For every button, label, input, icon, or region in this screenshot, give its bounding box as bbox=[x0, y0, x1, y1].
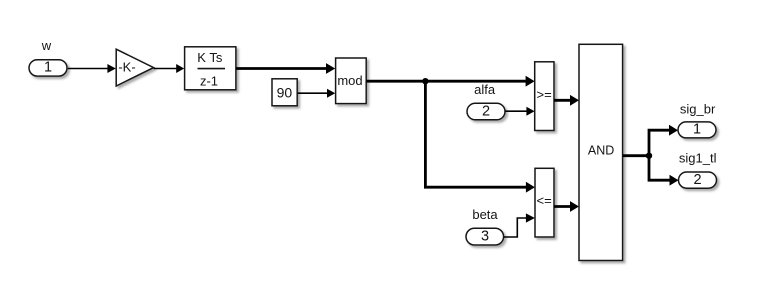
svg-text:AND: AND bbox=[588, 144, 614, 158]
svg-text:1: 1 bbox=[44, 60, 52, 76]
svg-text:alfa: alfa bbox=[474, 82, 496, 97]
wire: gte to AND (thick) bbox=[554, 99, 572, 102]
wire: junction down to outport 2 (thick) bbox=[649, 156, 671, 181]
constant 90 block bbox=[272, 79, 297, 106]
wire: w to gain bbox=[68, 68, 109, 70]
svg-text:beta: beta bbox=[472, 207, 498, 222]
arrowhead into gte input 1 bbox=[526, 76, 535, 87]
wire: beta to lte (stepped) bbox=[504, 218, 527, 237]
wire: mod to relational gte (thick) bbox=[366, 80, 527, 83]
svg-text:1: 1 bbox=[693, 122, 701, 138]
constant alfa (2) bbox=[467, 103, 505, 120]
arrowhead into AND input 1 bbox=[570, 95, 579, 106]
wire: junction down to relational lte (thick) bbox=[425, 81, 527, 187]
svg-text:-K-: -K- bbox=[118, 60, 135, 75]
arrowhead into gte input 2 bbox=[526, 107, 534, 116]
wire: 90 to mod bbox=[298, 92, 328, 94]
discrete transfer fcn block bbox=[185, 47, 236, 90]
svg-text:w: w bbox=[41, 38, 52, 53]
wire: gain to discrete transfer fcn bbox=[154, 68, 177, 70]
svg-text:2: 2 bbox=[693, 172, 701, 188]
wire: lte to AND (thick) bbox=[554, 205, 572, 208]
junction dot on mod output bbox=[422, 78, 428, 84]
svg-text:<=: <= bbox=[537, 193, 552, 208]
arrowhead into lte input 1 bbox=[526, 182, 535, 193]
wire: alfa to gte bbox=[506, 110, 528, 112]
outport 1 (sig_br) bbox=[678, 122, 716, 138]
arrowhead into gain bbox=[107, 64, 115, 73]
svg-text:mod: mod bbox=[337, 73, 362, 88]
inport 1 (w) bbox=[29, 60, 67, 76]
svg-text:2: 2 bbox=[482, 103, 490, 119]
svg-text:z-1: z-1 bbox=[200, 73, 218, 88]
logical operator AND block bbox=[579, 44, 623, 260]
svg-text:3: 3 bbox=[481, 228, 489, 244]
wire: transfer fcn to mod (thick) bbox=[236, 67, 328, 70]
junction dot on AND output bbox=[646, 153, 652, 159]
svg-text:K Ts: K Ts bbox=[197, 50, 223, 65]
svg-text:90: 90 bbox=[277, 84, 293, 100]
arrowhead into AND input 2 bbox=[570, 201, 579, 212]
svg-text:sig1_tl: sig1_tl bbox=[679, 151, 717, 166]
arrowhead into mod input 2 bbox=[327, 89, 335, 98]
arrowhead into mod input 1 bbox=[326, 63, 335, 74]
outport 2 (sig1_tl) bbox=[679, 172, 717, 188]
wire: junction up to outport 1 (thick) bbox=[649, 130, 671, 156]
arrowhead into outport 2 bbox=[670, 175, 679, 186]
wire: AND output to junction (thick) bbox=[623, 154, 650, 157]
arrowhead into outport 1 bbox=[669, 125, 678, 136]
svg-text:sig_br: sig_br bbox=[680, 102, 716, 117]
arrowhead into transfer fcn bbox=[176, 64, 184, 73]
gain block -K- bbox=[116, 49, 153, 86]
svg-text:>=: >= bbox=[537, 87, 552, 102]
relational operator gte block bbox=[535, 62, 554, 131]
transfer fcn fraction line bbox=[198, 68, 226, 70]
relational operator lte block bbox=[535, 168, 554, 237]
mod block bbox=[336, 58, 367, 104]
arrowhead into lte input 2 bbox=[526, 213, 535, 222]
constant beta (3) bbox=[466, 228, 504, 245]
